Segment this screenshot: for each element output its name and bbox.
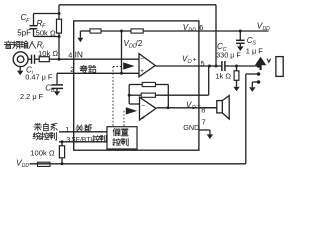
svg-text:2: 2 <box>70 65 74 74</box>
svg-text:6: 6 <box>199 23 203 32</box>
svg-text:7: 7 <box>202 118 206 127</box>
svg-text:IN: IN <box>75 49 83 59</box>
svg-text:B: B <box>51 88 55 94</box>
svg-text:–: – <box>197 102 201 109</box>
svg-text:330 μ F: 330 μ F <box>216 50 241 59</box>
svg-text:+: + <box>193 57 197 64</box>
svg-text:5: 5 <box>201 59 205 68</box>
svg-text:3: 3 <box>66 135 70 144</box>
svg-text:+: + <box>140 68 144 75</box>
svg-text:4: 4 <box>68 50 72 59</box>
svg-text:+: + <box>141 114 145 121</box>
svg-text:8: 8 <box>201 106 205 115</box>
svg-text:1k Ω: 1k Ω <box>215 71 231 80</box>
svg-text:50k Ω: 50k Ω <box>36 29 56 38</box>
svg-text:SE/BTL: SE/BTL <box>71 137 94 144</box>
svg-text:GND: GND <box>183 123 199 132</box>
svg-text:1 μ F: 1 μ F <box>246 46 263 55</box>
svg-text:2.2 μ F: 2.2 μ F <box>20 92 44 101</box>
svg-text:DD: DD <box>188 27 196 33</box>
svg-text:10k Ω: 10k Ω <box>38 49 58 58</box>
svg-text:DD: DD <box>22 163 30 169</box>
svg-text:5pF: 5pF <box>17 28 31 37</box>
svg-text:DD: DD <box>263 26 271 32</box>
svg-text:1: 1 <box>65 125 69 134</box>
svg-text:0.47 μ F: 0.47 μ F <box>25 73 53 82</box>
svg-text:/2: /2 <box>136 39 143 48</box>
svg-text:100k Ω: 100k Ω <box>30 149 55 158</box>
